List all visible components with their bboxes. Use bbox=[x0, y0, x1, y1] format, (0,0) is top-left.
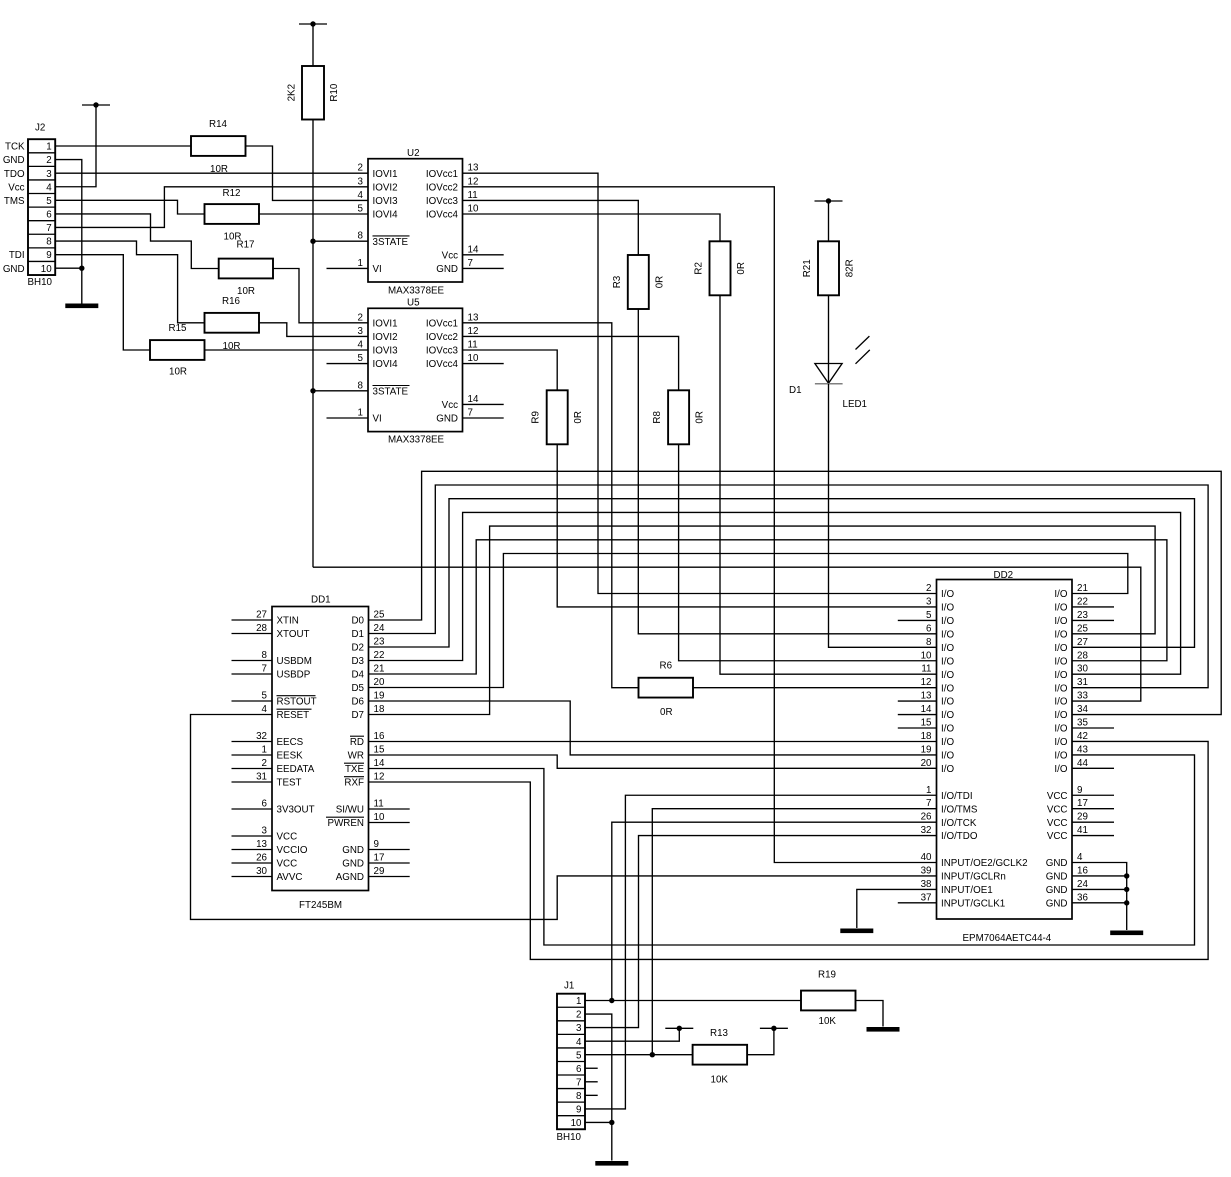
svg-text:13: 13 bbox=[921, 691, 932, 702]
wire DD1 left stub bbox=[232, 862, 273, 864]
svg-text:15: 15 bbox=[374, 745, 385, 756]
op-amp U5 (MAX3378EE level shifter) bbox=[358, 298, 479, 446]
svg-text:IOVI2: IOVI2 bbox=[373, 332, 398, 343]
IC DD2 (EPM7064AETC44-4) bbox=[921, 570, 1089, 944]
svg-text:VCC: VCC bbox=[1047, 804, 1068, 815]
svg-text:D5: D5 bbox=[351, 683, 364, 694]
wire J1 stub bbox=[585, 1094, 598, 1096]
wire J1.5 to R13 bbox=[585, 1054, 693, 1056]
svg-text:DD1: DD1 bbox=[311, 595, 331, 606]
wire DD2.7 TMS to J1.5 bbox=[652, 809, 936, 1055]
svg-text:I/O: I/O bbox=[1054, 764, 1067, 775]
svg-text:3: 3 bbox=[358, 176, 364, 187]
svg-text:VI: VI bbox=[373, 264, 382, 275]
svg-text:4: 4 bbox=[262, 704, 268, 715]
svg-text:6: 6 bbox=[262, 799, 268, 810]
svg-text:44: 44 bbox=[1077, 758, 1088, 769]
svg-text:GND: GND bbox=[436, 264, 458, 275]
power symbol VCC (R21) bbox=[815, 198, 843, 203]
svg-text:21: 21 bbox=[1077, 583, 1088, 594]
wire U2 VI stub bbox=[327, 267, 369, 269]
svg-text:7: 7 bbox=[468, 408, 473, 419]
svg-text:R8: R8 bbox=[652, 410, 663, 423]
svg-text:3: 3 bbox=[926, 596, 932, 607]
svg-text:7: 7 bbox=[262, 664, 267, 675]
svg-text:I/O: I/O bbox=[941, 603, 954, 614]
wire J2.8 jog to R16 bbox=[55, 241, 204, 323]
svg-text:14: 14 bbox=[468, 394, 479, 405]
wire U5 Vcc stub bbox=[463, 403, 504, 405]
svg-text:0R: 0R bbox=[695, 411, 706, 424]
svg-text:GND: GND bbox=[436, 414, 458, 425]
connector J2 (BH10) bbox=[3, 123, 55, 289]
svg-text:MAX3378EE: MAX3378EE bbox=[388, 286, 445, 297]
resistor R6 bbox=[639, 661, 694, 719]
wire R3 to DD2.6 bbox=[638, 309, 936, 634]
wire J2.7 to U2.IOVI2 bbox=[55, 187, 368, 228]
svg-text:0R: 0R bbox=[736, 262, 747, 275]
svg-text:VCC: VCC bbox=[277, 832, 298, 843]
svg-text:3V3OUT: 3V3OUT bbox=[277, 805, 315, 816]
wire U5 IOVcc4 stub bbox=[463, 363, 504, 365]
wire DD1.D1 to DD2.31 bbox=[369, 485, 1209, 688]
svg-text:8: 8 bbox=[926, 637, 932, 648]
svg-text:INPUT/OE2/GCLK2: INPUT/OE2/GCLK2 bbox=[941, 858, 1028, 869]
resistor R12 bbox=[205, 188, 260, 243]
wire U2.IOVcc1 to DD2.2 bbox=[463, 173, 937, 593]
svg-text:GND: GND bbox=[342, 859, 364, 870]
svg-text:IOVcc1: IOVcc1 bbox=[426, 169, 458, 180]
wire DD1.RXF to DD2.42 bbox=[369, 741, 1209, 959]
svg-text:31: 31 bbox=[1077, 677, 1088, 688]
svg-text:7: 7 bbox=[926, 798, 931, 809]
wire DD1.D2 to DD2.27 bbox=[369, 499, 1195, 648]
svg-text:R16: R16 bbox=[222, 296, 241, 307]
svg-text:TMS: TMS bbox=[4, 196, 25, 207]
svg-text:D7: D7 bbox=[351, 710, 364, 721]
svg-text:I/O: I/O bbox=[1054, 697, 1067, 708]
svg-text:8: 8 bbox=[358, 380, 364, 391]
svg-text:26: 26 bbox=[921, 812, 932, 823]
resistor R8 bbox=[652, 390, 706, 444]
svg-text:32: 32 bbox=[256, 731, 267, 742]
svg-text:R15: R15 bbox=[169, 323, 188, 334]
wire R14 to U2.IOVI3 bbox=[246, 146, 369, 200]
ground (J1) bbox=[595, 1161, 628, 1166]
svg-text:IOVI4: IOVI4 bbox=[373, 210, 399, 221]
wire DD1.D3 to DD2.30 bbox=[369, 512, 1181, 674]
svg-text:I/O: I/O bbox=[1054, 670, 1067, 681]
wire DD1 left stub bbox=[232, 835, 273, 837]
wire DD1 left stub bbox=[232, 876, 273, 878]
power symbol VCC (R13) bbox=[760, 1026, 788, 1031]
svg-text:I/O/TCK: I/O/TCK bbox=[941, 818, 977, 829]
wire DD1 left stub bbox=[232, 660, 273, 662]
svg-text:EEDATA: EEDATA bbox=[277, 764, 315, 775]
svg-text:GND: GND bbox=[342, 845, 364, 856]
svg-text:12: 12 bbox=[468, 176, 479, 187]
svg-text:20: 20 bbox=[921, 758, 932, 769]
wire DD1 left stub bbox=[232, 700, 273, 702]
svg-text:32: 32 bbox=[921, 825, 932, 836]
wire TDO J2.3 to U2.IOVI1 bbox=[55, 172, 368, 174]
svg-text:12: 12 bbox=[468, 326, 479, 337]
svg-text:20: 20 bbox=[374, 677, 385, 688]
wire DD1 left stub bbox=[232, 673, 273, 675]
svg-text:13: 13 bbox=[468, 312, 479, 323]
resistor R19 bbox=[801, 970, 856, 1028]
svg-text:BH10: BH10 bbox=[557, 1132, 582, 1143]
svg-text:EESK: EESK bbox=[277, 751, 304, 762]
wire DD1 left stub bbox=[232, 754, 273, 756]
wire J2.2 GND down bbox=[55, 160, 82, 304]
svg-text:4: 4 bbox=[358, 190, 364, 201]
svg-text:22: 22 bbox=[1077, 596, 1088, 607]
wire DD1.WR to DD2.20 bbox=[369, 755, 937, 768]
svg-text:I/O: I/O bbox=[1054, 616, 1067, 627]
svg-text:I/O: I/O bbox=[941, 589, 954, 600]
wire DD1.TXE to DD2.43 bbox=[369, 755, 1195, 945]
svg-text:34: 34 bbox=[1077, 704, 1088, 715]
svg-text:11: 11 bbox=[468, 190, 478, 201]
wire DD1 right stub bbox=[369, 822, 410, 824]
svg-text:U5: U5 bbox=[407, 298, 420, 309]
svg-text:IOVcc4: IOVcc4 bbox=[426, 359, 459, 370]
wire DD1 left stub bbox=[232, 849, 273, 851]
svg-text:IOVcc1: IOVcc1 bbox=[426, 318, 458, 329]
wire J2.4 Vcc to power bbox=[55, 105, 96, 187]
svg-text:12: 12 bbox=[374, 772, 385, 783]
svg-text:USBDP: USBDP bbox=[277, 670, 311, 681]
svg-text:14: 14 bbox=[468, 244, 479, 255]
svg-text:I/O: I/O bbox=[941, 737, 954, 748]
svg-text:MAX3378EE: MAX3378EE bbox=[388, 435, 445, 446]
svg-text:I/O: I/O bbox=[1054, 751, 1067, 762]
svg-text:R21: R21 bbox=[802, 259, 813, 277]
wire DD1 right stub bbox=[369, 808, 410, 810]
wire R12 to U2.IOVI4 bbox=[259, 213, 368, 215]
svg-text:24: 24 bbox=[374, 623, 385, 634]
svg-text:IOVcc4: IOVcc4 bbox=[426, 210, 459, 221]
svg-text:I/O/TDO: I/O/TDO bbox=[941, 831, 978, 842]
svg-text:82R: 82R bbox=[845, 259, 856, 277]
ground (R19) bbox=[867, 1027, 900, 1032]
svg-text:D3: D3 bbox=[351, 656, 364, 667]
ground (DD2 left) bbox=[840, 929, 873, 934]
svg-text:35: 35 bbox=[1077, 718, 1088, 729]
resistor R13 bbox=[693, 1028, 748, 1086]
svg-text:10K: 10K bbox=[711, 1075, 729, 1086]
svg-text:I/O: I/O bbox=[941, 724, 954, 735]
resistor R10 bbox=[287, 66, 341, 120]
svg-text:9: 9 bbox=[1077, 785, 1082, 796]
wire DD1 left stub bbox=[232, 741, 273, 743]
connector J1 (BH10) bbox=[557, 981, 586, 1144]
svg-text:33: 33 bbox=[1077, 691, 1088, 702]
power symbol VCC (R10) bbox=[299, 21, 327, 26]
svg-text:2: 2 bbox=[46, 155, 51, 166]
wire U5.IOVcc2 to R8 bbox=[463, 336, 679, 390]
wire DD2.36 GND bbox=[1072, 902, 1127, 904]
svg-text:1: 1 bbox=[358, 408, 363, 419]
wire DD1 left stub bbox=[232, 633, 273, 635]
wire TCK J2.1 to R14 bbox=[55, 145, 191, 147]
wire DD2 right stub bbox=[1072, 835, 1114, 837]
svg-text:5: 5 bbox=[358, 204, 364, 215]
wire J1.1 to R19 bbox=[585, 1000, 801, 1002]
resistor R14 bbox=[191, 119, 246, 175]
svg-text:12: 12 bbox=[921, 677, 932, 688]
svg-text:D2: D2 bbox=[351, 643, 364, 654]
wire U5 VI stub bbox=[327, 417, 369, 419]
svg-text:PWREN: PWREN bbox=[328, 818, 364, 829]
svg-text:10R: 10R bbox=[169, 367, 187, 378]
wire U5.IOVcc3 to R9 bbox=[463, 350, 558, 390]
wire J1.10 GND bbox=[585, 1121, 612, 1123]
svg-text:R12: R12 bbox=[223, 188, 241, 199]
wire DD2.32 TDO to J1.3 bbox=[585, 836, 937, 1028]
svg-text:GND: GND bbox=[1046, 858, 1068, 869]
svg-text:18: 18 bbox=[921, 731, 932, 742]
svg-text:10: 10 bbox=[921, 650, 932, 661]
svg-text:9: 9 bbox=[374, 839, 379, 850]
svg-text:25: 25 bbox=[1077, 623, 1088, 634]
wire DD1 left stub bbox=[232, 619, 273, 621]
wire R6 to DD2.12 bbox=[693, 687, 937, 689]
wire to U2 3STATE bbox=[313, 240, 368, 242]
svg-text:D4: D4 bbox=[351, 670, 364, 681]
wire 3STATE bus to DD2.33 bbox=[313, 567, 1141, 701]
svg-text:4: 4 bbox=[358, 340, 364, 351]
resistor R17 bbox=[219, 240, 273, 298]
svg-text:IOVI1: IOVI1 bbox=[373, 318, 398, 329]
svg-text:25: 25 bbox=[374, 610, 385, 621]
svg-text:14: 14 bbox=[921, 704, 932, 715]
resistor R15 bbox=[150, 323, 205, 378]
wire DD1.RESET to DD2.39 bbox=[191, 715, 937, 920]
svg-text:R19: R19 bbox=[818, 970, 836, 981]
wire J1 stub bbox=[585, 1081, 598, 1083]
svg-text:4: 4 bbox=[1077, 852, 1083, 863]
svg-text:I/O: I/O bbox=[941, 751, 954, 762]
junction U2 3STATE bbox=[310, 239, 315, 244]
svg-text:TDO: TDO bbox=[4, 169, 25, 180]
svg-text:19: 19 bbox=[374, 691, 385, 702]
wire J1.4 to power bbox=[585, 1028, 679, 1041]
svg-text:17: 17 bbox=[1077, 798, 1088, 809]
svg-text:19: 19 bbox=[921, 744, 932, 755]
wire R19 to ground bbox=[856, 1001, 884, 1027]
svg-text:VCC: VCC bbox=[277, 859, 298, 870]
svg-text:IOVcc3: IOVcc3 bbox=[426, 346, 459, 357]
wire DD2 right stub bbox=[1072, 767, 1114, 769]
junction DD2.16 GND bbox=[1124, 873, 1129, 878]
svg-text:31: 31 bbox=[256, 772, 267, 783]
svg-text:11: 11 bbox=[921, 664, 931, 675]
svg-text:7: 7 bbox=[576, 1077, 581, 1088]
svg-text:15: 15 bbox=[921, 718, 932, 729]
svg-text:R14: R14 bbox=[209, 119, 228, 130]
wire J1 stub bbox=[585, 1067, 598, 1069]
svg-text:11: 11 bbox=[374, 799, 384, 810]
wire R9 to DD2.3 bbox=[557, 444, 936, 607]
wire U2.IOVcc4 to R2 bbox=[463, 214, 721, 241]
svg-text:10K: 10K bbox=[819, 1016, 837, 1027]
wire DD2 left stub bbox=[898, 700, 937, 702]
svg-text:I/O: I/O bbox=[941, 683, 954, 694]
svg-text:IOVcc3: IOVcc3 bbox=[426, 196, 459, 207]
svg-text:22: 22 bbox=[374, 650, 385, 661]
svg-text:GND: GND bbox=[1046, 885, 1068, 896]
svg-text:RSTOUT: RSTOUT bbox=[277, 697, 317, 708]
svg-text:VCC: VCC bbox=[1047, 831, 1068, 842]
svg-text:RESET: RESET bbox=[277, 710, 310, 721]
wire DD1 right stub bbox=[369, 876, 410, 878]
svg-text:3: 3 bbox=[46, 169, 52, 180]
wire U2.IOVcc3 to R3 bbox=[463, 200, 639, 255]
svg-text:IOVI2: IOVI2 bbox=[373, 182, 398, 193]
svg-text:4: 4 bbox=[576, 1037, 582, 1048]
svg-text:27: 27 bbox=[256, 610, 267, 621]
svg-text:2: 2 bbox=[262, 758, 267, 769]
svg-text:7: 7 bbox=[468, 258, 473, 269]
svg-text:9: 9 bbox=[46, 250, 51, 261]
svg-text:10: 10 bbox=[374, 812, 385, 823]
wire U5 IOVI4 stub bbox=[327, 363, 369, 365]
svg-text:I/O: I/O bbox=[941, 616, 954, 627]
wire DD1.D4 to DD2.28 bbox=[369, 540, 1167, 674]
wire DD2 left stub bbox=[898, 902, 937, 904]
svg-text:AGND: AGND bbox=[336, 872, 364, 883]
svg-text:I/O: I/O bbox=[1054, 629, 1067, 640]
svg-text:8: 8 bbox=[358, 231, 364, 242]
wire DD2.4 GND bbox=[1072, 863, 1127, 931]
svg-text:U2: U2 bbox=[407, 148, 420, 159]
svg-text:37: 37 bbox=[921, 892, 932, 903]
svg-text:TCK: TCK bbox=[5, 142, 25, 153]
svg-text:23: 23 bbox=[374, 637, 385, 648]
svg-text:2: 2 bbox=[358, 163, 363, 174]
wire U2 GND stub bbox=[463, 267, 504, 269]
svg-text:6: 6 bbox=[926, 623, 932, 634]
junction DD2.36 GND bbox=[1124, 900, 1129, 905]
wire DD1.RD to DD2.18 bbox=[369, 741, 937, 743]
wire R17 to U5.IOVI1 bbox=[273, 269, 368, 323]
svg-text:5: 5 bbox=[576, 1050, 582, 1061]
wire DD1.D7 to DD2.25 bbox=[369, 526, 1156, 714]
svg-text:R10: R10 bbox=[329, 83, 340, 102]
wire R2 to DD2.11 bbox=[720, 295, 937, 674]
svg-text:2: 2 bbox=[926, 583, 931, 594]
svg-text:I/O: I/O bbox=[941, 764, 954, 775]
svg-text:11: 11 bbox=[468, 340, 478, 351]
wire DD2 right stub bbox=[1072, 794, 1114, 796]
wire U2.IOVcc2 to DD2.40 bbox=[463, 187, 937, 863]
junction U5 3STATE bbox=[310, 388, 315, 393]
svg-text:IOVI3: IOVI3 bbox=[373, 196, 399, 207]
svg-text:I/O: I/O bbox=[1054, 724, 1067, 735]
svg-text:0R: 0R bbox=[573, 411, 584, 424]
svg-text:I/O: I/O bbox=[1054, 737, 1067, 748]
svg-text:I/O: I/O bbox=[1054, 603, 1067, 614]
svg-text:WR: WR bbox=[348, 751, 364, 762]
svg-text:INPUT/GCLRn: INPUT/GCLRn bbox=[941, 872, 1006, 883]
svg-text:I/O: I/O bbox=[1054, 656, 1067, 667]
svg-text:4: 4 bbox=[46, 182, 52, 193]
svg-text:36: 36 bbox=[1077, 892, 1088, 903]
wire DD1 right stub bbox=[369, 849, 410, 851]
resistor R3 bbox=[612, 255, 666, 309]
svg-text:10: 10 bbox=[41, 264, 52, 275]
svg-text:VCC: VCC bbox=[1047, 818, 1068, 829]
wire to U5 3STATE bbox=[313, 390, 368, 392]
svg-text:10: 10 bbox=[571, 1118, 582, 1129]
svg-text:I/O: I/O bbox=[941, 629, 954, 640]
svg-text:3: 3 bbox=[262, 826, 268, 837]
svg-text:38: 38 bbox=[921, 879, 932, 890]
wire DD2 right stub bbox=[1072, 619, 1114, 621]
svg-text:18: 18 bbox=[374, 704, 385, 715]
wire DD2 right stub bbox=[1072, 808, 1114, 810]
svg-text:RXF: RXF bbox=[344, 778, 364, 789]
svg-text:28: 28 bbox=[1077, 650, 1088, 661]
wire DD2.24 GND bbox=[1072, 888, 1127, 890]
svg-text:10: 10 bbox=[468, 204, 479, 215]
svg-text:29: 29 bbox=[1077, 812, 1088, 823]
wire R15 to U5.IOVI3 bbox=[205, 349, 369, 351]
svg-text:1: 1 bbox=[262, 745, 267, 756]
svg-text:GND: GND bbox=[1046, 898, 1068, 909]
svg-text:D1: D1 bbox=[351, 629, 364, 640]
wire U2 Vcc stub bbox=[463, 254, 504, 256]
svg-text:I/O/TMS: I/O/TMS bbox=[941, 804, 978, 815]
svg-text:Vcc: Vcc bbox=[442, 400, 458, 411]
svg-text:I/O: I/O bbox=[941, 710, 954, 721]
svg-text:USBDM: USBDM bbox=[277, 656, 312, 667]
svg-text:2: 2 bbox=[358, 312, 363, 323]
svg-text:30: 30 bbox=[1077, 664, 1088, 675]
svg-text:10: 10 bbox=[468, 353, 479, 364]
resistor R16 bbox=[205, 296, 260, 352]
wire U5.IOVcc1 to R6 bbox=[463, 323, 639, 688]
svg-text:8: 8 bbox=[46, 237, 52, 248]
power symbol VCC (J2 pin 4) bbox=[82, 102, 110, 107]
wire DD2.1 TDI to J1.9 bbox=[585, 795, 937, 1109]
junction J1.1 bbox=[609, 998, 614, 1003]
wire DD2.16 GND bbox=[1072, 875, 1127, 877]
svg-text:I/O: I/O bbox=[941, 656, 954, 667]
power symbol VCC (J1.4) bbox=[665, 1026, 693, 1031]
ground (DD2 right) bbox=[1110, 931, 1143, 936]
svg-text:16: 16 bbox=[1077, 865, 1088, 876]
svg-text:26: 26 bbox=[256, 853, 267, 864]
svg-text:7: 7 bbox=[46, 223, 51, 234]
svg-text:IOVI4: IOVI4 bbox=[373, 359, 399, 370]
wire DD1.D6 to DD2.19 bbox=[369, 701, 937, 755]
svg-text:2: 2 bbox=[576, 1010, 581, 1021]
svg-text:1: 1 bbox=[926, 785, 931, 796]
svg-text:J2: J2 bbox=[35, 123, 45, 134]
svg-text:I/O: I/O bbox=[941, 643, 954, 654]
svg-text:28: 28 bbox=[256, 623, 267, 634]
svg-text:5: 5 bbox=[926, 610, 932, 621]
svg-text:16: 16 bbox=[374, 731, 385, 742]
svg-text:6: 6 bbox=[46, 210, 52, 221]
resistor R9 bbox=[531, 390, 585, 444]
svg-text:5: 5 bbox=[46, 196, 52, 207]
wire TDI J2.9 to R15 bbox=[55, 255, 150, 350]
svg-text:D6: D6 bbox=[351, 697, 364, 708]
